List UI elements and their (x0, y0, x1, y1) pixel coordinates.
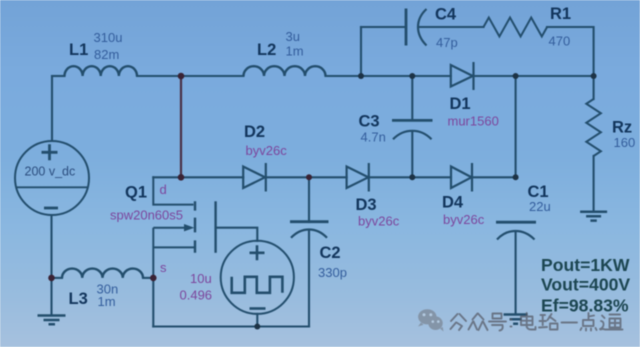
svg-text:Rz: Rz (612, 119, 632, 137)
wire (266, 176, 347, 178)
svg-text:3u: 3u (286, 29, 300, 44)
node (drain row junction) (178, 174, 185, 181)
wire (361, 26, 406, 28)
wire (515, 76, 517, 177)
svg-text:4.7n: 4.7n (361, 130, 386, 145)
node (C1 mid) (513, 174, 519, 180)
svg-text:D4: D4 (442, 194, 464, 212)
svg-text:470: 470 (549, 34, 571, 49)
svg-text:D2: D2 (244, 123, 265, 141)
node (L1-L2 junction) (178, 73, 185, 80)
wire (highlighted) (180, 76, 182, 177)
diode D1 (448, 62, 499, 129)
svg-text:byv26c: byv26c (358, 214, 400, 229)
node (C2 top) (306, 174, 312, 180)
wire (153, 325, 309, 327)
node (pulse bottom) (254, 324, 260, 330)
svg-text:200 v_dc: 200 v_dc (25, 165, 76, 179)
svg-text:10u: 10u (190, 271, 212, 286)
node (C3 top) (409, 73, 415, 79)
wire (326, 75, 451, 77)
inductor L3 (62, 269, 143, 309)
wire (50, 278, 52, 315)
wire (360, 27, 362, 76)
svg-text:22u: 22u (529, 199, 551, 214)
wire (411, 76, 413, 120)
svg-text:C3: C3 (359, 113, 380, 131)
svg-text:spw20n60s5: spw20n60s5 (110, 208, 183, 223)
svg-text:mur1560: mur1560 (448, 114, 499, 129)
wire (472, 176, 515, 178)
watermark text (451, 313, 623, 331)
resistor R1 (484, 5, 572, 49)
svg-text:s: s (160, 260, 167, 275)
svg-text:C2: C2 (320, 244, 341, 262)
wire (515, 232, 517, 314)
wire (411, 132, 413, 178)
svg-text:L2: L2 (257, 41, 276, 59)
svg-text:1m: 1m (286, 44, 304, 59)
wire (52, 75, 65, 77)
inductor L2 (244, 29, 326, 76)
svg-text:310u: 310u (94, 30, 123, 45)
wire (152, 278, 154, 327)
node (C1 top) (513, 73, 519, 79)
wire (419, 26, 484, 28)
ground (under Rz) (580, 212, 607, 221)
node (source-L3) (48, 275, 55, 282)
wire (474, 75, 594, 77)
capacitor C1 (496, 183, 551, 240)
inductor L1 (65, 30, 137, 76)
watermark wechat icon (418, 309, 444, 331)
wire (52, 277, 63, 279)
svg-text:0.496: 0.496 (180, 288, 213, 303)
svg-text:D3: D3 (356, 196, 377, 214)
svg-text:byv26c: byv26c (443, 212, 485, 227)
node s (150, 275, 157, 282)
svg-text:R1: R1 (550, 5, 571, 23)
wire (137, 75, 244, 77)
svg-text:L1: L1 (69, 41, 88, 59)
svg-text:82m: 82m (94, 47, 119, 62)
ground (left) (38, 316, 66, 325)
svg-text:330p: 330p (318, 265, 347, 280)
svg-text:d: d (160, 182, 167, 197)
wire (51, 76, 53, 141)
wire (308, 177, 310, 222)
wire (216, 228, 258, 241)
node (C4 branch) (358, 73, 364, 79)
svg-text:D1: D1 (450, 95, 471, 113)
svg-text:Vout=400V: Vout=400V (541, 275, 630, 295)
svg-text:160: 160 (614, 135, 636, 150)
capacitor C2 (290, 222, 347, 280)
wire (153, 176, 243, 178)
capacitor C3 (359, 113, 433, 145)
svg-text:C4: C4 (435, 6, 457, 24)
ground (under C1) (504, 315, 528, 324)
svg-text:Pout=1KW: Pout=1KW (541, 255, 630, 275)
diode D2 (243, 123, 287, 192)
wire (143, 277, 153, 279)
svg-text:Ef=98.83%: Ef=98.83% (541, 296, 629, 316)
wire (256, 314, 258, 327)
resistor Rz (586, 99, 635, 156)
transistor Q1 (110, 176, 216, 278)
node (C3 bottom) (409, 174, 415, 180)
wire (547, 27, 594, 76)
diode D4 (442, 163, 485, 227)
wire (50, 215, 52, 278)
node (R1/Rz corner) (591, 73, 597, 79)
svg-text:1m: 1m (98, 294, 116, 309)
wire (593, 76, 595, 99)
wire (369, 176, 451, 178)
diode D3 (347, 163, 400, 229)
svg-text:L3: L3 (69, 290, 88, 308)
wire (308, 231, 310, 327)
capacitor C4 (406, 6, 458, 51)
svg-text:byv26c: byv26c (246, 143, 288, 158)
wire (593, 156, 595, 211)
svg-text:47p: 47p (436, 35, 458, 50)
voltage source V 200v_dc (15, 141, 89, 215)
pulse source Vgs (180, 241, 294, 314)
svg-text:Q1: Q1 (125, 184, 147, 202)
